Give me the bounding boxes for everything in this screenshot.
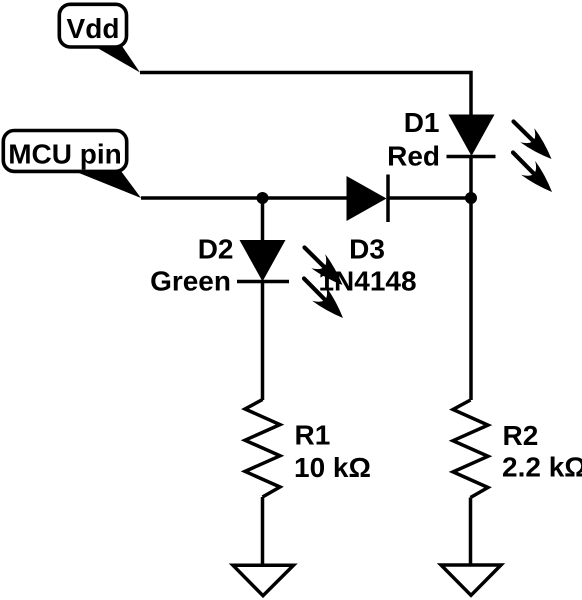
wire MCU pin to D3 anode [141,196,347,200]
svg-text:Vdd: Vdd [67,13,120,44]
LED D2 light arrow 1 [305,248,343,286]
svg-text:D1: D1 [404,107,440,138]
junction node B [257,192,269,204]
svg-text:Red: Red [387,140,440,171]
wire R2 to ground [469,498,473,566]
wire Vdd to D1 anode [140,73,471,117]
svg-text:D3: D3 [349,233,385,264]
diode D3 triangle [347,176,387,221]
node MCU pin flag box [3,131,126,172]
wire R1 to ground [261,497,265,566]
svg-text:D2: D2 [198,234,234,265]
diode D3 cathode bar [386,175,390,223]
LED D2 triangle [240,240,286,282]
LED D1 triangle [449,115,495,157]
svg-text:2.2 kΩ: 2.2 kΩ [502,452,582,483]
wire D1 cathode to node A [469,156,473,198]
junction node A [465,192,477,204]
wire D2 cathode to R1 [261,282,265,401]
node Vdd flag box [59,4,126,47]
node Vdd flag tail [94,46,140,73]
svg-text:10 kΩ: 10 kΩ [294,452,371,483]
resistor R2 zigzag [453,400,488,498]
LED D2 cathode bar [237,280,289,284]
svg-text:R2: R2 [503,420,539,451]
LED D2 light arrow 2 [304,279,343,319]
ground symbol right [441,565,501,595]
wire node A to R2 [469,198,473,400]
wire D3 cathode to node A [388,196,471,200]
wire node B to D2 anode [261,198,265,241]
ground symbol left [233,565,294,595]
svg-text:MCU pin: MCU pin [8,138,122,169]
svg-text:Green: Green [150,265,231,296]
LED D1 light arrow 2 [513,153,552,193]
LED D1 light arrow 1 [514,122,552,160]
node MCU pin flag tail [74,171,141,198]
svg-text:R1: R1 [295,419,331,450]
resistor R1 zigzag [245,400,280,498]
LED D1 cathode bar [447,155,496,159]
